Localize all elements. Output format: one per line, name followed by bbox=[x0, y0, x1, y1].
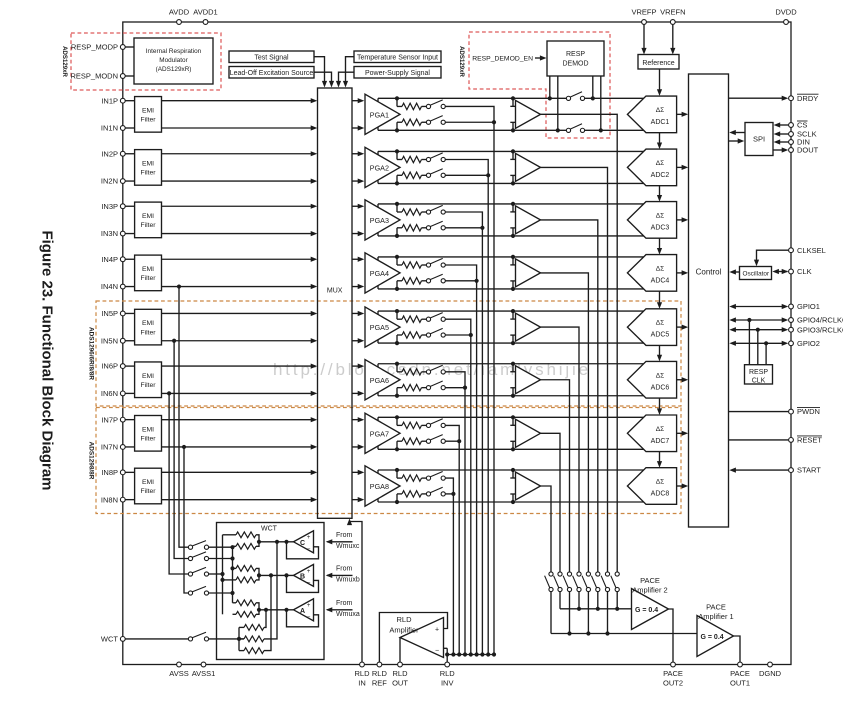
svg-text:IN5P: IN5P bbox=[101, 309, 118, 318]
svg-text:Filter: Filter bbox=[140, 488, 156, 495]
wire ADC4 to ADC5 bbox=[657, 291, 662, 309]
wire RESP DEMOD leg 3 bbox=[592, 76, 594, 98]
wire ch8 RLD tap bottom bbox=[445, 493, 453, 495]
svg-text:+: + bbox=[307, 534, 311, 541]
wire PGA7 fb top stub bbox=[397, 417, 402, 425]
wire PGA3 fb top stub bbox=[397, 204, 402, 212]
op-amp WCT A bbox=[294, 599, 314, 621]
port RLD IN bbox=[354, 662, 370, 687]
watermark bbox=[273, 360, 591, 379]
wire buffer1 + tap bbox=[510, 98, 515, 106]
svg-text:RLD: RLD bbox=[372, 669, 388, 678]
wire ch3 RLD drop bbox=[481, 228, 483, 655]
wire buffer3 output bbox=[541, 220, 598, 572]
svg-text:ADC6: ADC6 bbox=[651, 384, 670, 391]
wire to switch top ch4 bbox=[422, 264, 427, 266]
wire From Wmuxc bbox=[326, 532, 360, 550]
port START bbox=[789, 466, 822, 475]
svg-text:ADS1296/6R/8/8R: ADS1296/6R/8/8R bbox=[88, 327, 95, 380]
svg-text:AVDD: AVDD bbox=[169, 8, 190, 17]
buffer amp ch7 bbox=[516, 419, 541, 447]
wire SCLK to SPI bbox=[774, 131, 789, 136]
wire buffer2 - tap bbox=[510, 175, 515, 183]
wire ADC5 to ADC6 bbox=[657, 345, 662, 361]
wire to switch bottom ch4 bbox=[422, 280, 427, 282]
junction ch8 RLD bus bbox=[451, 652, 455, 656]
svg-text:ΔΣ: ΔΣ bbox=[656, 320, 664, 327]
svg-text:IN8P: IN8P bbox=[101, 468, 118, 477]
wire ch6 RLD drop bbox=[464, 388, 466, 655]
svg-text:IN1P: IN1P bbox=[101, 96, 118, 105]
wire ch3P feedback line bbox=[378, 203, 644, 205]
wire PACE ch4 to amp bus bbox=[587, 592, 589, 634]
junction buffer5 + tap bbox=[511, 309, 515, 313]
wire ch5 RLD drop bbox=[470, 335, 472, 655]
label RESP_DEMOD_EN bbox=[472, 56, 533, 63]
svg-text:ΔΣ: ΔΣ bbox=[656, 160, 664, 167]
PGA5 bbox=[365, 307, 400, 347]
wire IN5N to EMI bbox=[125, 340, 134, 342]
wire MUX to PGA5 bottom input bbox=[352, 338, 364, 343]
wire ch1 RLD drop bbox=[493, 122, 495, 654]
wire ch4P feedback line bbox=[378, 256, 644, 258]
PGA2 bbox=[365, 147, 400, 187]
switch fb top ch5 bbox=[426, 313, 445, 322]
wire ch3N feedback line bbox=[378, 235, 644, 237]
PGA3 bbox=[365, 200, 400, 240]
junction ch1 RLD tap bbox=[492, 120, 496, 124]
junction buffer2 - tap bbox=[511, 181, 515, 185]
switch resp demod N bbox=[566, 124, 584, 133]
svg-text:Modulator: Modulator bbox=[159, 57, 188, 64]
svg-text:CLK: CLK bbox=[752, 377, 766, 384]
wire EMI5N to MUX bbox=[162, 338, 318, 343]
port DIN bbox=[789, 138, 810, 147]
wire MUX to PGA8 top input bbox=[352, 470, 364, 475]
wire EMI2P to MUX bbox=[162, 151, 318, 156]
wire MUX to PGA2 top input bbox=[352, 151, 364, 156]
svg-text:IN6N: IN6N bbox=[101, 389, 118, 398]
resistor PGA2 bottom bbox=[402, 172, 422, 178]
wire VREFN to reference bbox=[670, 25, 675, 55]
svg-text:IN2P: IN2P bbox=[101, 149, 118, 158]
port IN6P bbox=[101, 362, 125, 371]
wire to switch top ch6 bbox=[422, 371, 427, 373]
svg-text:Filter: Filter bbox=[140, 222, 156, 229]
svg-text:Wmuxc: Wmuxc bbox=[336, 543, 360, 550]
buffer amp ch4 bbox=[516, 259, 541, 287]
wire PACE ch2 to amp bus bbox=[607, 592, 609, 634]
svg-text:WCT: WCT bbox=[101, 635, 118, 644]
wire ch6P fb hook bbox=[377, 364, 379, 367]
wire buffer2 output bbox=[541, 167, 608, 572]
svg-text:ΔΣ: ΔΣ bbox=[656, 426, 664, 433]
wct feedback loop A bbox=[287, 610, 319, 627]
wire RLD OUT bbox=[399, 638, 401, 662]
wire From Wmuxa bbox=[326, 600, 360, 618]
svg-text:EMI: EMI bbox=[142, 107, 154, 114]
svg-text:Filter: Filter bbox=[140, 275, 156, 282]
wire avg row1 to A bbox=[264, 608, 268, 628]
wire START to control bbox=[729, 468, 788, 473]
svg-text:EMI: EMI bbox=[142, 426, 154, 433]
wire PACE amp2 output bbox=[669, 609, 674, 662]
svg-text:ΔΣ: ΔΣ bbox=[656, 372, 664, 379]
switch PACE ch6 bbox=[563, 572, 572, 592]
resistor PGA3 bottom bbox=[402, 225, 422, 231]
svg-text:From: From bbox=[336, 600, 353, 607]
wire ch7N drop to WCT switch bbox=[184, 447, 188, 593]
buffer amp ch2 bbox=[516, 153, 541, 181]
switch PACE ch3 bbox=[591, 572, 600, 592]
junction ch6N to WCT bbox=[167, 391, 171, 395]
label ADS129xR (left box) bbox=[61, 46, 68, 77]
switch fb bottom ch6 bbox=[426, 381, 445, 390]
SPI box bbox=[745, 123, 773, 156]
wire to switch top ch8 bbox=[422, 477, 427, 479]
resistor PGA6 bottom bbox=[402, 384, 422, 390]
wire CLKSEL to oscillator bbox=[754, 250, 789, 266]
wire ch2 RLD tap bottom bbox=[445, 174, 488, 176]
svg-text:ADC7: ADC7 bbox=[651, 438, 670, 445]
wire PGA2 fb top stub bbox=[397, 151, 402, 159]
svg-text:From: From bbox=[336, 532, 353, 539]
wire MUX to PGA3 bottom input bbox=[352, 231, 364, 236]
wire buffer5 - tap bbox=[510, 335, 515, 343]
junction buffer3 + tap bbox=[511, 202, 515, 206]
wire PACE ch6 to amp bus bbox=[569, 592, 571, 634]
svg-text:ΔΣ: ΔΣ bbox=[656, 479, 664, 486]
wire DIN to SPI bbox=[774, 139, 789, 144]
svg-text:GPIO1: GPIO1 bbox=[797, 302, 820, 311]
wire IN1P to EMI bbox=[125, 100, 134, 102]
wire EMI5P to MUX bbox=[162, 311, 318, 316]
ADC6 delta-sigma bbox=[627, 361, 676, 398]
wire PGA8 fb top stub bbox=[397, 470, 402, 478]
junction ch3 RLD bus bbox=[480, 652, 484, 656]
resistor PGA7 top bbox=[402, 422, 422, 428]
switch fb bottom ch4 bbox=[426, 274, 445, 283]
wire ch3P fb hook bbox=[377, 204, 379, 207]
junction ch4 RLD tap bbox=[475, 279, 479, 283]
wire ch8N feedback line bbox=[378, 501, 644, 503]
wire ch1 RLD tap top bbox=[445, 106, 494, 122]
svg-text:ΔΣ: ΔΣ bbox=[656, 212, 664, 219]
svg-text:ΔΣ: ΔΣ bbox=[656, 265, 664, 272]
junction PGA3 bottom out bbox=[395, 234, 399, 238]
wire ADC2 to ADC3 bbox=[657, 186, 662, 202]
svg-text:PGA2: PGA2 bbox=[370, 164, 389, 173]
RESP DEMOD box bbox=[547, 41, 604, 76]
wire to switch top ch5 bbox=[422, 318, 427, 320]
switch resp demod P bbox=[566, 92, 584, 101]
svg-text:Filter: Filter bbox=[140, 329, 156, 336]
junction V1 Bbot bbox=[220, 578, 224, 582]
port DVDD bbox=[775, 8, 797, 25]
wire PACE amp1 output bbox=[734, 636, 741, 662]
wire ch8P feedback line bbox=[378, 469, 644, 471]
svg-text:IN6P: IN6P bbox=[101, 362, 118, 371]
resistor WCT B top bbox=[233, 566, 257, 572]
svg-text:IN8N: IN8N bbox=[101, 495, 118, 504]
svg-text:GPIO2: GPIO2 bbox=[797, 339, 820, 348]
switch WCT line bbox=[188, 632, 208, 641]
junction PGA6 top out bbox=[395, 362, 399, 366]
junction buffer4 + tap bbox=[511, 255, 515, 259]
wire ch7 RLD drop bbox=[458, 441, 460, 654]
wire From Wmuxb bbox=[326, 566, 360, 584]
switch fb top ch2 bbox=[426, 153, 445, 162]
wire EMI7N to MUX bbox=[162, 444, 318, 449]
svg-text:From: From bbox=[336, 566, 353, 573]
resistor WCT C top bbox=[223, 532, 257, 538]
wire buffer8 output bbox=[541, 486, 552, 572]
svg-text:DRDY: DRDY bbox=[797, 94, 818, 103]
svg-text:ADC4: ADC4 bbox=[651, 277, 670, 284]
svg-text:CLKSEL: CLKSEL bbox=[797, 246, 826, 255]
PGA7 bbox=[365, 413, 400, 453]
wire RESP DEMOD leg 1 bbox=[549, 76, 551, 98]
wire to switch top ch3 bbox=[422, 211, 427, 213]
svg-text:ADC2: ADC2 bbox=[651, 172, 670, 179]
wire ADC3 output to control bbox=[677, 217, 689, 222]
wire EMI2N to MUX bbox=[162, 179, 318, 184]
svg-text:PWDN: PWDN bbox=[797, 407, 820, 416]
wire EMI4N to MUX bbox=[162, 284, 318, 289]
svg-text:PGA7: PGA7 bbox=[370, 429, 389, 438]
svg-text:Wmuxa: Wmuxa bbox=[336, 611, 360, 618]
svg-text:MUX: MUX bbox=[327, 288, 343, 295]
svg-text:Reference: Reference bbox=[642, 60, 674, 67]
ADS129xR resp demod dashed outline bbox=[469, 32, 610, 138]
wire VREFP to reference bbox=[641, 25, 646, 55]
svg-text:ADC8: ADC8 bbox=[651, 491, 670, 498]
wire PGA1 fb bottom stub bbox=[397, 122, 402, 130]
wire ch2N fb hook bbox=[377, 180, 379, 183]
wire ch5P fb hook bbox=[377, 311, 379, 314]
wire WCT input 3 to box bbox=[209, 573, 223, 575]
wire EMI7P to MUX bbox=[162, 417, 318, 422]
junction PACE ch1 bbox=[615, 607, 619, 611]
resistor PGA5 bottom bbox=[402, 332, 422, 338]
junction ch3 RLD tap bbox=[480, 226, 484, 230]
port CS bbox=[789, 121, 808, 130]
svg-text:EMI: EMI bbox=[142, 213, 154, 220]
resistor PGA8 top bbox=[402, 475, 422, 481]
wire IN7N to EMI bbox=[125, 446, 134, 448]
svg-text:+: + bbox=[435, 627, 439, 634]
temperature sensor input box bbox=[354, 51, 441, 63]
svg-text:ADC5: ADC5 bbox=[651, 332, 670, 339]
junction buffer5 - tap bbox=[511, 341, 515, 345]
svg-text:EMI: EMI bbox=[142, 320, 154, 327]
wire PACE ch3 to amp bus bbox=[597, 592, 599, 609]
port PACE OUT2 bbox=[663, 662, 683, 687]
EMI filter ch2 bbox=[135, 150, 162, 186]
wire to switch bottom ch8 bbox=[422, 493, 427, 495]
wire RESP_MODN bbox=[125, 75, 134, 77]
junction ch6 RLD tap bbox=[463, 386, 467, 390]
internal respiration modulator box bbox=[134, 38, 213, 84]
wire RLD inv input bbox=[444, 648, 450, 656]
wire to switch top ch2 bbox=[422, 159, 427, 161]
ADS1298 dashed box (ch7-8) bbox=[96, 408, 681, 514]
PGA4 bbox=[365, 253, 400, 293]
svg-text:Control: Control bbox=[696, 268, 722, 277]
wire buffer4 output bbox=[541, 273, 589, 572]
wire to switch bottom ch5 bbox=[422, 334, 427, 336]
wire RLD REF loop bbox=[379, 613, 447, 662]
svg-text:Test Signal: Test Signal bbox=[254, 55, 289, 62]
svg-text:ADS129xR: ADS129xR bbox=[458, 46, 465, 77]
port IN4P bbox=[101, 255, 125, 264]
svg-text:Figure 23. Functional Block: Figure 23. Functional Block Diagram bbox=[39, 230, 56, 490]
wire buffer5 output bbox=[541, 327, 580, 572]
wire EMI3N to MUX bbox=[162, 231, 318, 236]
wire IN2N to EMI bbox=[125, 180, 134, 182]
svg-text:RLD: RLD bbox=[440, 669, 456, 678]
buffer amp ch5 bbox=[516, 313, 541, 341]
wire PGA1 fb top stub bbox=[397, 98, 402, 106]
wire PACE amp2 input bus bbox=[560, 608, 632, 610]
switch fb top ch4 bbox=[426, 258, 445, 267]
label ADS1298/8R bbox=[88, 442, 95, 480]
wire test signal to MUX bbox=[314, 57, 327, 88]
lead-off excitation source box bbox=[229, 67, 314, 79]
wire EMI4P to MUX bbox=[162, 257, 318, 262]
port IN2N bbox=[101, 177, 125, 186]
EMI filter ch4 bbox=[135, 255, 162, 291]
port PWDN bbox=[789, 407, 820, 416]
ADC4 delta-sigma bbox=[627, 255, 676, 292]
wire MUX to PGA1 top input bbox=[352, 98, 364, 103]
port GPIO3/RCLKO bbox=[789, 325, 843, 334]
svg-text:RESP_MODP: RESP_MODP bbox=[71, 43, 118, 52]
port IN2P bbox=[101, 149, 125, 158]
wire buffer5 + tap bbox=[510, 311, 515, 319]
svg-text:Amplifier 2: Amplifier 2 bbox=[632, 585, 667, 594]
svg-text:OUT2: OUT2 bbox=[663, 679, 683, 688]
EMI filter ch6 bbox=[135, 362, 162, 398]
wire ch6N drop to WCT switch bbox=[169, 393, 188, 574]
junction V1 sw3 bbox=[220, 572, 224, 576]
port RLD REF bbox=[372, 662, 388, 687]
svg-text:IN3N: IN3N bbox=[101, 229, 118, 238]
wire MUX to PGA4 top input bbox=[352, 257, 364, 262]
junction PGA7 bottom out bbox=[395, 447, 399, 451]
wire GPIO4 bbox=[729, 317, 788, 364]
ADS129xR respiration modulator dashed box bbox=[71, 33, 221, 90]
svg-text:PACE: PACE bbox=[663, 669, 683, 678]
junction PGA3 top out bbox=[395, 202, 399, 206]
svg-text:PGA4: PGA4 bbox=[370, 269, 389, 278]
wire PGA2 fb bottom stub bbox=[397, 175, 402, 183]
wire CS to SPI bbox=[774, 122, 789, 127]
port RESP_MODP bbox=[71, 43, 125, 52]
wire buffer6 - tap bbox=[510, 388, 515, 396]
port IN5N bbox=[101, 336, 125, 345]
wire buffer4 + tap bbox=[510, 257, 515, 265]
wire EMI3P to MUX bbox=[162, 204, 318, 209]
port IN3N bbox=[101, 229, 125, 238]
wire MUX to PGA4 bottom input bbox=[352, 284, 364, 289]
wire ch2 RLD tap top bbox=[445, 160, 488, 176]
wire WCT B join bbox=[256, 568, 294, 580]
wire ch5N feedback line bbox=[378, 342, 644, 344]
wire ch7N fb hook bbox=[377, 446, 379, 449]
wire ADC4 output to control bbox=[677, 270, 689, 275]
resistor PGA4 bottom bbox=[402, 278, 422, 284]
port CLKSEL bbox=[789, 246, 826, 255]
svg-text:PACE: PACE bbox=[706, 603, 726, 612]
switch fb top ch3 bbox=[426, 205, 445, 214]
wire ch2N feedback line bbox=[378, 182, 644, 184]
svg-text:INV: INV bbox=[441, 679, 454, 688]
wire IN7P to EMI bbox=[125, 419, 134, 421]
svg-text:+: + bbox=[307, 568, 311, 575]
wire ch8 RLD tap top bbox=[445, 478, 453, 494]
test signal box bbox=[229, 51, 314, 63]
port CLK bbox=[789, 267, 812, 276]
EMI filter ch7 bbox=[135, 416, 162, 452]
junction buffer6 + tap bbox=[511, 362, 515, 366]
junction buffer1 + tap bbox=[511, 96, 515, 100]
junction ch2 RLD tap bbox=[486, 173, 490, 177]
switch WCT input 3 bbox=[188, 567, 208, 576]
wire MUX to PGA6 top input bbox=[352, 364, 364, 369]
wire ch2P feedback line bbox=[378, 150, 644, 152]
port IN8P bbox=[101, 468, 125, 477]
svg-text:−: − bbox=[307, 580, 311, 587]
chip boundary bbox=[123, 22, 791, 665]
svg-text:G = 0.4: G = 0.4 bbox=[635, 607, 658, 614]
svg-text:Lead-Off Excitation Source: Lead-Off Excitation Source bbox=[230, 70, 314, 77]
wire ch6N fb hook bbox=[377, 392, 379, 395]
wire MUX to PGA5 top input bbox=[352, 311, 364, 316]
port VREFP bbox=[631, 8, 656, 25]
wire buffer3 + tap bbox=[510, 204, 515, 212]
wire buffer7 - tap bbox=[510, 441, 515, 449]
switch PACE ch7 bbox=[554, 572, 563, 592]
ADC3 delta-sigma bbox=[627, 202, 676, 239]
resistor WCT B bottom bbox=[223, 577, 257, 583]
wire IN6N to EMI bbox=[125, 392, 134, 394]
svg-text:DGND: DGND bbox=[759, 669, 782, 678]
junction WCT C feedback bbox=[284, 540, 288, 544]
port RLD INV bbox=[440, 662, 456, 687]
svg-text:−: − bbox=[435, 648, 439, 655]
junction V2 sw1 bbox=[230, 545, 234, 549]
buffer amp ch3 bbox=[516, 206, 541, 234]
wire ch5P feedback line bbox=[378, 310, 644, 312]
svg-text:G = 0.4: G = 0.4 bbox=[701, 634, 724, 641]
junction PGA1 top out bbox=[395, 96, 399, 100]
wire ADC1 to ADC2 bbox=[657, 133, 662, 149]
junction PACE ch3 bbox=[596, 607, 600, 611]
resistor PGA6 top bbox=[402, 369, 422, 375]
control box bbox=[689, 74, 729, 527]
junction V2 Btop bbox=[230, 566, 234, 570]
wire ch7 RLD tap top bbox=[445, 425, 459, 441]
wire ADC7 to ADC8 bbox=[657, 452, 662, 468]
junction buffer4 - tap bbox=[511, 287, 515, 291]
svg-text:RESP_DEMOD_EN: RESP_DEMOD_EN bbox=[472, 56, 533, 63]
wire ch1N feedback line bbox=[378, 129, 644, 131]
port GPIO2 bbox=[789, 339, 820, 348]
svg-text:RLD: RLD bbox=[392, 669, 408, 678]
junction PGA1 bottom out bbox=[395, 128, 399, 132]
junction PACE ch6 bbox=[567, 631, 571, 635]
